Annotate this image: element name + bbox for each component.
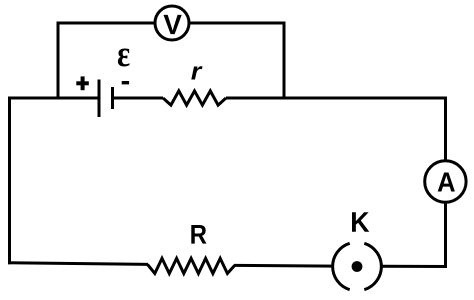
wire: resistor r to right outer vertical <box>226 97 447 100</box>
label R (external resistor) <box>191 225 206 244</box>
wire: resistor R to key <box>234 264 334 268</box>
battery polarity label - <box>122 81 129 84</box>
wire: right outer vertical lower (ammeter to bottom) <box>444 203 447 269</box>
wire: bottom right horizontal (key to corner) <box>381 265 448 268</box>
label K (key) <box>352 212 369 232</box>
ammeter circle U: A <box>425 161 466 202</box>
voltmeter circle U: V <box>155 6 189 40</box>
key K left arc <box>333 243 350 289</box>
wire: top horizontal left of voltmeter <box>57 22 156 25</box>
wire: main row left of battery <box>8 97 99 100</box>
key K right arc <box>364 243 381 289</box>
battery short plate (negative) <box>111 87 114 109</box>
ammeter letter A <box>438 173 455 192</box>
wire: right outer vertical upper (to ammeter) <box>444 97 447 161</box>
wire: left outer vertical <box>8 97 11 265</box>
key K center dot <box>352 261 363 272</box>
resistor R <box>148 258 235 273</box>
resistor r <box>163 91 226 105</box>
battery polarity label + <box>76 76 89 90</box>
wire: top horizontal right of voltmeter <box>189 22 286 25</box>
wire: bottom left horizontal <box>8 263 148 265</box>
label r (internal resistance) <box>191 66 202 79</box>
battery long plate (positive) <box>98 80 101 118</box>
wire: voltmeter branch left vertical <box>57 22 60 100</box>
wire: voltmeter branch right vertical <box>283 22 286 100</box>
label EMF epsilon <box>118 49 130 67</box>
voltmeter letter V <box>164 15 182 34</box>
wire: battery to resistor r <box>113 97 164 100</box>
